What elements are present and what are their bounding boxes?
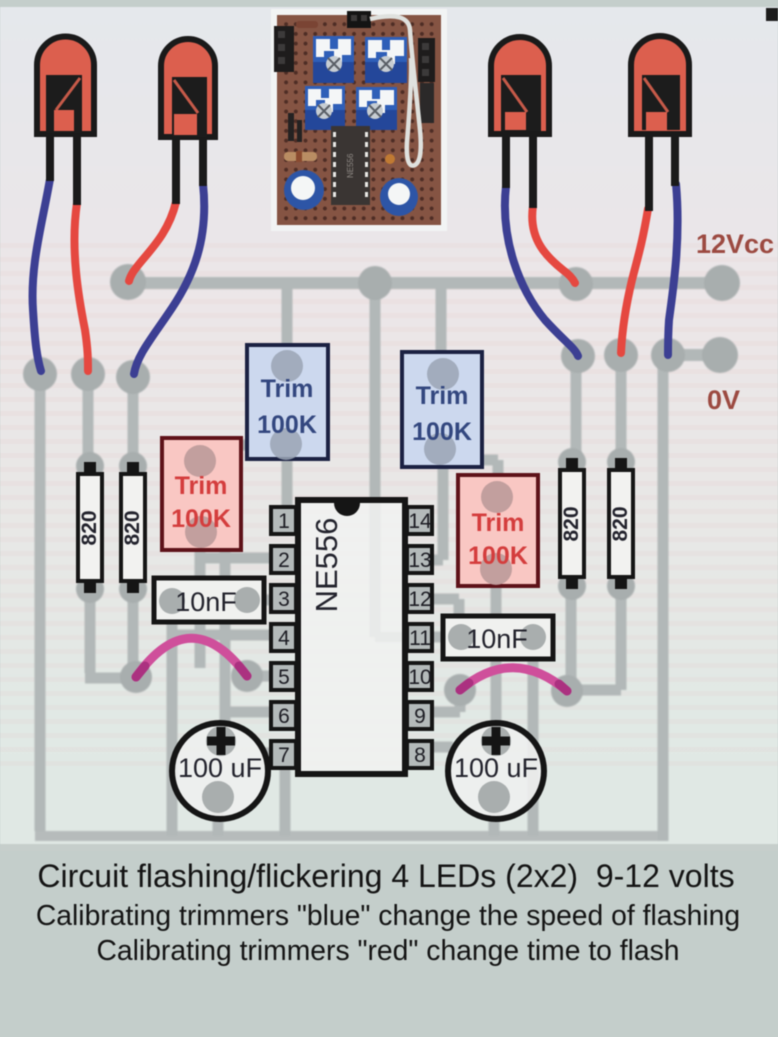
- svg-text:10nF: 10nF: [175, 587, 237, 617]
- photo brown bit top left: [296, 21, 318, 28]
- wire pad L3 to R2 top: [128, 376, 139, 466]
- jumper wire pink arc right: [460, 668, 567, 691]
- node pad R1 resistor bottom: [76, 575, 104, 603]
- photo header right: [418, 38, 435, 123]
- node pad arc L left: [120, 661, 152, 693]
- photo trimpot 1: [313, 36, 354, 83]
- photo electrolytic cap right: [380, 178, 418, 216]
- wire cap L bottom to ground: [213, 797, 224, 836]
- wire cap R bottom to ground: [489, 797, 500, 836]
- node pad R1 resistor top: [76, 452, 104, 480]
- photo electrolytic cap left: [284, 170, 324, 210]
- wire LED4 blue lead: [668, 184, 678, 355]
- svg-text:820: 820: [560, 506, 583, 541]
- photo small bead: [385, 154, 395, 164]
- pin 4: [271, 624, 296, 651]
- net label 0V: [707, 385, 740, 415]
- svg-text:100K: 100K: [257, 411, 317, 439]
- wire pin6 branch to cap L: [221, 550, 272, 741]
- pin 14: [407, 507, 432, 534]
- wire LED1 red lead: [74, 203, 88, 371]
- node pad R3: [651, 338, 685, 372]
- wire internal to pin11: [375, 632, 432, 642]
- pin 13: [407, 546, 432, 573]
- photo IC: [331, 126, 370, 205]
- LED D2: [161, 39, 215, 204]
- pin 8: [407, 741, 432, 768]
- svg-text:12: 12: [408, 588, 431, 611]
- op-amp U1 NE556 DIP body: [298, 500, 405, 774]
- wire red trim R bottom to cap R: [491, 571, 502, 741]
- svg-text:11: 11: [409, 627, 431, 650]
- wire 10nF L left pad to ground: [167, 601, 178, 836]
- pin 5: [271, 663, 296, 690]
- wire pad L2 to R1 top: [83, 374, 94, 466]
- capacitor C4 100uF right: [448, 723, 544, 819]
- node rail pad LED3 red: [559, 267, 593, 301]
- capacitor C3 100uF left: [172, 723, 268, 819]
- pin 3: [271, 585, 296, 612]
- svg-text:8: 8: [414, 744, 426, 767]
- svg-text:NE556: NE556: [309, 518, 344, 613]
- svg-text:100K: 100K: [171, 505, 231, 533]
- wire rail to blue trim R top: [436, 283, 447, 373]
- caption line 3: [96, 934, 679, 966]
- node pad R4 resistor top: [607, 448, 635, 476]
- jumper wire pink arc left: [136, 638, 247, 677]
- svg-text:NE556: NE556: [346, 153, 355, 178]
- wire right 0V bus: [658, 355, 669, 841]
- trimmer RV1 blue Trim 100K left: [247, 345, 328, 460]
- wire R3 bottom to arc R pad: [566, 586, 577, 691]
- pin 1: [271, 507, 296, 534]
- wire pin8 stub: [432, 742, 453, 753]
- svg-text:2: 2: [278, 549, 290, 572]
- svg-text:0V: 0V: [707, 385, 740, 415]
- pin 2: [271, 546, 296, 573]
- wire blue trim R bottom to pin13: [432, 450, 443, 560]
- capacitor C1 10nF left: [154, 578, 264, 622]
- wire pin7 stub to cap L: [262, 748, 272, 759]
- svg-text:Trim: Trim: [261, 375, 314, 403]
- svg-text:5: 5: [278, 666, 290, 689]
- wire pin9 link to arc R pad: [432, 690, 460, 712]
- wire R2 bottom to arc pad: [128, 589, 139, 677]
- wire pad R2 to R4 top: [616, 355, 627, 462]
- net label 12Vcc: [696, 229, 774, 259]
- node pad R1: [561, 339, 595, 373]
- wire R4 bottom to arc link: [616, 586, 627, 690]
- photo trimpot 2: [365, 37, 407, 83]
- photo perfboard: [277, 15, 441, 225]
- pin 11: [407, 624, 432, 651]
- photo header top left: [274, 26, 294, 72]
- pin 7: [271, 741, 296, 768]
- node pad R2 resistor top: [119, 452, 147, 480]
- wire pad R1 to R3 top: [571, 356, 582, 462]
- svg-text:100K: 100K: [468, 542, 528, 570]
- wire LED4 red lead: [621, 209, 648, 353]
- wire red trim L top link: [196, 445, 287, 460]
- svg-text:12Vcc: 12Vcc: [696, 229, 774, 259]
- node pad L2: [71, 357, 105, 391]
- node pad R3 resistor top: [558, 448, 586, 476]
- photo trimpot 3: [305, 86, 345, 130]
- svg-text:4: 4: [278, 627, 290, 650]
- trimmer RV4 red Trim 100K right: [458, 475, 538, 586]
- resistor R1 820: [78, 462, 102, 593]
- wire red trim L bottom to pin2: [196, 533, 272, 668]
- caption line 2: [36, 899, 740, 931]
- svg-text:7: 7: [278, 744, 290, 767]
- resistor R3 820: [560, 458, 584, 589]
- corner mark top right: [766, 8, 778, 21]
- wire left ground bus: [35, 374, 46, 831]
- node pad R2: [604, 338, 638, 372]
- svg-text:10nF: 10nF: [466, 624, 528, 654]
- wire 10nF R right pad to ground: [528, 637, 539, 836]
- node pad R3 resistor bottom: [558, 572, 586, 600]
- svg-text:100K: 100K: [412, 418, 472, 446]
- node rail pad left end: [110, 264, 146, 300]
- pin 10: [407, 663, 432, 690]
- wire LED2 blue lead: [134, 184, 204, 374]
- node pad arc R left: [444, 674, 476, 706]
- wire red trim R top link: [443, 460, 498, 492]
- photo header top center: [347, 11, 371, 28]
- node pad R4 resistor bottom: [607, 572, 635, 600]
- wire arc L right pad to pin5: [247, 671, 272, 682]
- wire R1 bottom elbow to arc pad: [85, 589, 136, 678]
- svg-text:3: 3: [278, 588, 290, 611]
- svg-text:Circuit flashing/flickering 4: Circuit flashing/flickering 4 LEDs (2x2)…: [37, 858, 734, 894]
- wire pin4 horizontal: [172, 630, 298, 641]
- wire below pin7 to ground: [280, 768, 291, 836]
- svg-text:6: 6: [278, 705, 290, 728]
- svg-text:10: 10: [408, 666, 431, 689]
- pin 12: [407, 585, 432, 612]
- caption line 1: [37, 858, 734, 894]
- wire LED3 blue lead: [505, 186, 578, 356]
- wire pin11 stub: [432, 632, 446, 643]
- svg-text:9: 9: [414, 705, 426, 728]
- node pad 0V end: [702, 337, 738, 373]
- wire bottom ground rail: [35, 831, 668, 841]
- resistor R2 820: [121, 462, 145, 593]
- svg-text:Trim: Trim: [175, 472, 228, 500]
- svg-text:Trim: Trim: [416, 382, 469, 410]
- node rail pad right end 12Vcc: [704, 265, 740, 301]
- resistor R4 820: [609, 458, 633, 589]
- photo trimpot 4: [356, 87, 397, 130]
- wire blue trim L bottom to pin1: [282, 446, 293, 510]
- wire 10nF L right pad to pin3: [247, 595, 272, 606]
- trimmer RV2 blue Trim 100K right: [402, 352, 482, 467]
- svg-text:Calibrating trimmers "red" cha: Calibrating trimmers "red" change time t…: [96, 934, 679, 966]
- svg-text:Calibrating trimmers "blue" ch: Calibrating trimmers "blue" change the s…: [36, 899, 740, 931]
- LED D4: [631, 36, 689, 211]
- wire 0V link: [668, 349, 720, 361]
- wire LED3 red lead: [532, 206, 575, 283]
- photo white jumper wire: [370, 16, 421, 165]
- node pad R2 resistor bottom: [119, 575, 147, 603]
- node pad L3: [116, 360, 150, 394]
- LED D3: [491, 37, 549, 208]
- svg-text:13: 13: [408, 549, 431, 572]
- trimmer RV3 red Trim 100K left: [162, 438, 241, 550]
- wire arc R pad link: [567, 685, 621, 696]
- wire center vertical from rail: [370, 283, 381, 637]
- node pad arc R right: [551, 675, 583, 707]
- svg-text:820: 820: [78, 510, 101, 545]
- svg-text:14: 14: [408, 510, 432, 533]
- node rail pad center: [358, 266, 392, 300]
- wire LED1 blue lead: [33, 179, 50, 371]
- svg-text:820: 820: [609, 506, 632, 541]
- capacitor C2 10nF right: [443, 616, 553, 659]
- svg-text:820: 820: [121, 510, 144, 545]
- photo paper backing: [271, 9, 447, 231]
- LED D1: [37, 37, 94, 206]
- svg-text:Trim: Trim: [472, 509, 525, 537]
- svg-text:1: 1: [278, 510, 290, 533]
- wire 12Vcc rail: [128, 277, 722, 289]
- wire pin12 link to 10nF R: [432, 599, 459, 637]
- node pad arc L right: [231, 660, 263, 692]
- pin 9: [407, 702, 432, 729]
- svg-text:100 uF: 100 uF: [178, 753, 262, 783]
- wire rail to blue trim L top: [282, 283, 293, 367]
- wire LED2 red lead: [129, 202, 176, 281]
- svg-text:100 uF: 100 uF: [454, 753, 538, 783]
- node pad L1: [23, 357, 57, 391]
- photo wire stubs left: [288, 113, 302, 142]
- photo small resistor: [284, 151, 317, 162]
- pin 6: [271, 702, 296, 729]
